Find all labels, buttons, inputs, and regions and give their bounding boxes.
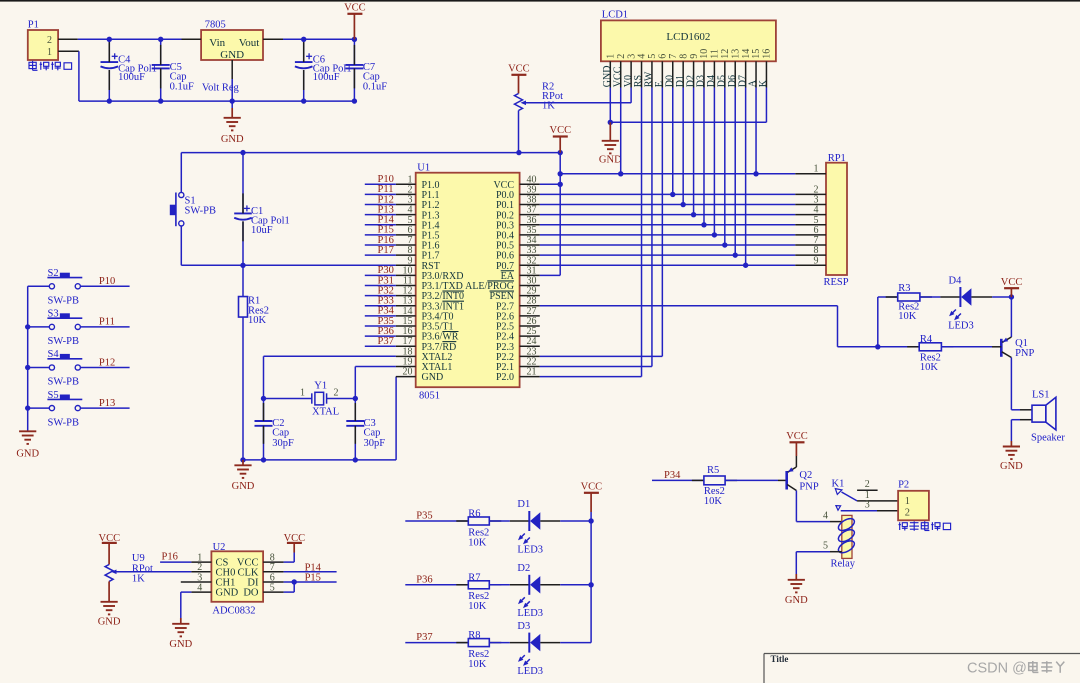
svg-text:13: 13 (730, 49, 741, 59)
svg-text:LS1: LS1 (1032, 390, 1050, 401)
svg-text:K: K (758, 79, 769, 87)
svg-text:30pF: 30pF (272, 438, 294, 449)
svg-text:D5: D5 (717, 75, 728, 87)
svg-text:R6: R6 (468, 509, 480, 520)
svg-text:2: 2 (905, 508, 910, 519)
svg-text:10: 10 (699, 49, 710, 59)
svg-text:P2: P2 (898, 480, 909, 491)
svg-text:XTAL: XTAL (312, 407, 339, 418)
svg-text:V0: V0 (623, 75, 634, 87)
svg-text:D7: D7 (737, 75, 748, 87)
svg-text:4: 4 (637, 54, 648, 59)
svg-text:1K: 1K (132, 574, 145, 585)
svg-text:E: E (654, 81, 665, 87)
svg-text:10K: 10K (468, 659, 487, 670)
svg-text:GND: GND (1000, 461, 1023, 472)
svg-text:LED3: LED3 (517, 608, 543, 619)
svg-text:U9: U9 (132, 553, 145, 564)
svg-text:VCC: VCC (786, 431, 808, 442)
svg-text:8: 8 (678, 54, 689, 59)
svg-text:RW: RW (644, 71, 655, 87)
svg-text:3: 3 (865, 500, 870, 511)
svg-text:10K: 10K (898, 311, 917, 322)
svg-text:7805: 7805 (205, 20, 226, 31)
svg-text:D6: D6 (727, 75, 738, 87)
svg-text:5: 5 (647, 54, 658, 59)
svg-text:10K: 10K (468, 601, 487, 612)
svg-text:S5: S5 (48, 390, 59, 401)
svg-text:R3: R3 (898, 283, 910, 294)
svg-text:14: 14 (741, 49, 752, 59)
svg-text:0.1uF: 0.1uF (170, 82, 194, 93)
svg-text:D1: D1 (517, 499, 530, 510)
svg-text:GND: GND (232, 481, 255, 492)
svg-text:GND: GND (221, 134, 244, 145)
svg-text:Vin: Vin (209, 37, 225, 49)
svg-text:GND: GND (98, 616, 121, 627)
svg-text:PNP: PNP (1015, 348, 1034, 359)
svg-text:VCC: VCC (344, 3, 366, 14)
svg-text:R4: R4 (920, 334, 933, 345)
svg-text:P36: P36 (416, 574, 432, 585)
svg-text:2: 2 (334, 388, 339, 399)
svg-text:R8: R8 (468, 630, 480, 641)
svg-text:LCD1602: LCD1602 (666, 31, 710, 43)
svg-text:9: 9 (814, 255, 819, 266)
svg-text:1: 1 (814, 164, 819, 175)
svg-text:Cap: Cap (364, 428, 381, 439)
svg-text:12: 12 (720, 49, 731, 59)
svg-text:P1: P1 (28, 20, 39, 31)
svg-text:2: 2 (865, 479, 870, 490)
svg-text:SW-PB: SW-PB (185, 206, 217, 217)
svg-text:20: 20 (403, 367, 413, 378)
svg-text:VCC: VCC (612, 66, 623, 87)
svg-text:LED3: LED3 (517, 666, 543, 677)
svg-text:P15: P15 (305, 573, 321, 584)
svg-text:LCD1: LCD1 (602, 10, 628, 21)
svg-text:P10: P10 (99, 276, 115, 287)
svg-text:2: 2 (47, 35, 52, 46)
svg-text:1K: 1K (542, 101, 555, 112)
svg-text:2: 2 (616, 54, 627, 59)
svg-text:7: 7 (668, 54, 679, 59)
svg-text:100uF: 100uF (118, 72, 145, 83)
svg-text:1: 1 (47, 47, 52, 58)
svg-text:3: 3 (626, 54, 637, 59)
svg-text:Y1: Y1 (314, 381, 327, 392)
svg-text:11: 11 (710, 49, 721, 59)
svg-text:K1: K1 (832, 478, 845, 489)
svg-text:10uF: 10uF (251, 225, 273, 236)
svg-text:P13: P13 (99, 398, 115, 409)
svg-text:VCC: VCC (581, 481, 603, 492)
svg-text:15: 15 (751, 49, 762, 59)
svg-text:RS: RS (633, 75, 644, 87)
svg-text:9: 9 (689, 54, 700, 59)
svg-text:ADC0832: ADC0832 (212, 606, 255, 617)
svg-text:PNP: PNP (799, 482, 818, 493)
svg-text:P11: P11 (99, 317, 115, 328)
svg-text:SW-PB: SW-PB (48, 336, 80, 347)
svg-text:Vout: Vout (239, 37, 260, 49)
svg-text:Relay: Relay (831, 559, 856, 570)
svg-text:D3: D3 (696, 75, 707, 87)
svg-text:10K: 10K (704, 496, 723, 507)
svg-text:S2: S2 (48, 268, 59, 279)
svg-text:D2: D2 (517, 563, 530, 574)
svg-text:5: 5 (823, 541, 828, 552)
svg-text:SW-PB: SW-PB (48, 296, 80, 307)
svg-text:30pF: 30pF (364, 438, 386, 449)
svg-text:10K: 10K (248, 315, 267, 326)
svg-text:P37: P37 (378, 336, 394, 347)
svg-text:CSDN @: CSDN @ (967, 661, 1027, 677)
svg-text:GND: GND (422, 372, 444, 383)
svg-text:P34: P34 (664, 470, 681, 481)
svg-text:Cap: Cap (272, 428, 289, 439)
svg-text:VCC: VCC (508, 64, 530, 75)
svg-text:P2.0: P2.0 (496, 372, 514, 383)
svg-text:D1: D1 (675, 75, 686, 87)
svg-text:D3: D3 (517, 621, 530, 632)
svg-text:S3: S3 (48, 309, 59, 320)
svg-text:P35: P35 (416, 511, 432, 522)
svg-text:D4: D4 (706, 75, 717, 87)
svg-text:21: 21 (527, 367, 537, 378)
svg-text:LED3: LED3 (517, 544, 543, 555)
svg-text:GND: GND (602, 66, 613, 88)
svg-text:0.1uF: 0.1uF (363, 82, 387, 93)
svg-text:Speaker: Speaker (1031, 433, 1065, 444)
svg-text:VCC: VCC (550, 125, 572, 136)
svg-text:GND: GND (785, 595, 808, 606)
svg-text:P16: P16 (162, 552, 178, 563)
svg-text:8051: 8051 (419, 391, 440, 402)
svg-text:GND: GND (220, 49, 244, 61)
svg-text:GND: GND (599, 154, 622, 165)
svg-text:SW-PB: SW-PB (48, 377, 80, 388)
svg-text:R7: R7 (468, 572, 480, 583)
svg-text:P17: P17 (378, 245, 394, 256)
svg-text:10K: 10K (920, 362, 939, 373)
svg-text:GND: GND (169, 639, 192, 650)
svg-text:10K: 10K (468, 537, 487, 548)
svg-text:P37: P37 (416, 632, 432, 643)
svg-text:R5: R5 (707, 465, 719, 476)
svg-text:100uF: 100uF (313, 72, 340, 83)
svg-text:RESP: RESP (823, 277, 848, 288)
svg-text:4: 4 (823, 511, 828, 522)
svg-text:GND: GND (16, 448, 39, 459)
svg-text:S4: S4 (48, 349, 60, 360)
svg-text:P12: P12 (99, 357, 115, 368)
svg-text:SW-PB: SW-PB (48, 417, 80, 428)
svg-text:Title: Title (771, 654, 789, 664)
svg-text:A: A (748, 79, 759, 87)
svg-text:VCC: VCC (1001, 277, 1023, 288)
svg-text:6: 6 (658, 54, 669, 59)
svg-text:U1: U1 (417, 162, 430, 173)
svg-text:D0: D0 (664, 75, 675, 87)
svg-text:D4: D4 (949, 276, 963, 287)
svg-text:Volt Reg: Volt Reg (202, 83, 240, 94)
svg-text:Q2: Q2 (799, 470, 812, 481)
svg-text:D2: D2 (685, 75, 696, 87)
svg-text:16: 16 (762, 49, 773, 59)
svg-text:DO: DO (243, 588, 259, 599)
svg-text:1: 1 (606, 54, 617, 59)
svg-text:1: 1 (905, 496, 910, 507)
svg-text:GND: GND (216, 588, 239, 599)
svg-text:1: 1 (300, 388, 305, 399)
svg-text:LED3: LED3 (948, 321, 974, 332)
